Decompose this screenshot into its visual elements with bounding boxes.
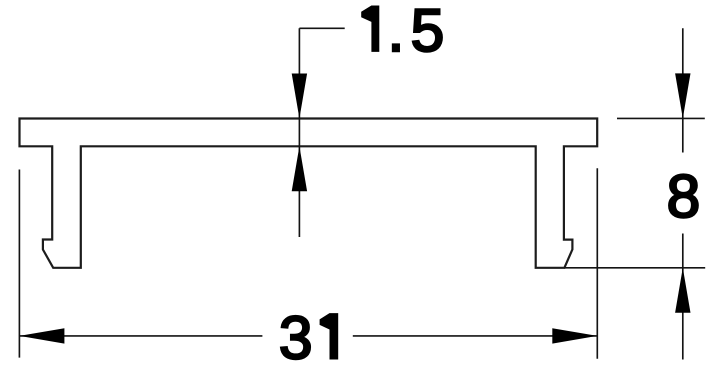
svg-text:3: 3	[279, 304, 313, 372]
dim 31 right extension line	[596, 168, 598, 359]
dim 8 vertical line upper segment	[682, 28, 684, 152]
dim 1.5 arrow up (tip at plate bottom)	[292, 146, 307, 191]
dim 1.5 leader vertical line	[298, 28, 300, 237]
dim 8 top extension line	[617, 117, 705, 119]
dim 1.5 arrow down (tip at plate top)	[292, 74, 307, 119]
dim 31 left extension line	[18, 170, 20, 358]
dim 31 arrow left	[19, 328, 64, 343]
dim 1.5 leader horizontal jog	[299, 27, 344, 29]
dim 8 arrow up (tip at bottom extension)	[675, 268, 690, 313]
svg-text:8: 8	[667, 162, 701, 230]
svg-text:5: 5	[411, 0, 445, 64]
dim 31 line left segment	[19, 335, 262, 337]
dim 31 arrow right	[552, 328, 597, 343]
dim 8 vertical line lower segment	[682, 234, 684, 360]
dim 31 line right segment	[353, 335, 598, 337]
dim 8 bottom extension line	[564, 267, 705, 269]
dim 8 arrow down (tip at top extension)	[675, 73, 690, 118]
dim 1.5 text: digit 1 (custom glyph)	[361, 6, 379, 52]
profile outline (C-channel cross-section)	[20, 119, 598, 268]
svg-text:.: .	[388, 0, 405, 64]
dim 31 text: digit 1 (custom glyph)	[320, 313, 339, 359]
